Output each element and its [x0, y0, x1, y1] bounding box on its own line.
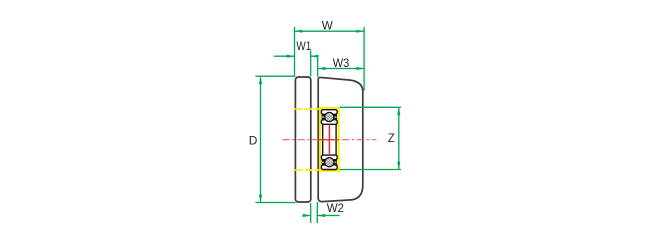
dimension W extension left: [294, 27, 296, 77]
dimension W line: [295, 30, 365, 32]
dimension W3 arrow right: [356, 67, 364, 70]
svg-text:W2: W2: [327, 201, 345, 215]
roller body: [318, 77, 363, 201]
bore seam (red vertical): [328, 125, 330, 154]
dimension W1 arrow left: [287, 55, 295, 58]
dimension W1 line left segment: [274, 55, 295, 57]
svg-text:W: W: [322, 18, 334, 32]
flange plate (left washer): [295, 77, 310, 202]
svg-text:W3: W3: [333, 56, 350, 70]
dimension W3 line: [318, 68, 364, 70]
dimension D extension bottom: [255, 202, 295, 204]
dimension W1 extension right: [310, 51, 312, 77]
dimension D extension top: [255, 75, 295, 77]
dimension Z extension top: [340, 106, 401, 108]
dimension D line: [260, 76, 262, 202]
bearing bore walls: [323, 121, 336, 158]
dimension W arrow left: [295, 30, 303, 33]
dimension W2 extension right: [316, 202, 318, 223]
dimension W3 extension left: [317, 56, 319, 77]
hidden bore line top (yellow dashed): [295, 108, 319, 110]
cage tab bottom-left: [322, 159, 325, 165]
dimension W arrow right: [356, 30, 364, 33]
centerline (red dash-dot): [282, 139, 376, 141]
dimension W2 arrow right: [317, 214, 325, 217]
ball top: [325, 112, 334, 121]
cage tab top-right: [334, 114, 337, 120]
svg-text:D: D: [249, 134, 258, 148]
dimension W2 extension left: [310, 203, 312, 223]
dimension W1 line right segment: [311, 55, 319, 57]
dimension D arrow bottom: [259, 195, 262, 203]
dimension W2 arrow left: [303, 214, 311, 217]
dimension W1 arrow right: [311, 55, 319, 58]
dimension W2 line right segment: [317, 215, 339, 217]
outer race top: [321, 110, 337, 115]
inner race top: [321, 120, 337, 125]
bearing outline (yellow rectangle): [320, 108, 339, 171]
dimension Z arrow top: [397, 107, 400, 115]
outer race bottom: [321, 165, 337, 170]
dimension Z line: [398, 107, 400, 169]
svg-text:Z: Z: [388, 131, 395, 145]
dimension Z extension bottom: [340, 169, 401, 171]
dimension Z arrow bottom: [397, 162, 400, 170]
dimension W extension right: [363, 27, 365, 91]
inner race bottom: [321, 155, 337, 160]
centerline solid segment across bearing: [318, 139, 339, 141]
dimension W2 line left segment: [303, 215, 311, 217]
cage tab top-left: [322, 114, 325, 120]
ball bottom: [325, 158, 334, 167]
hidden bore line bottom (yellow dashed): [295, 169, 319, 171]
dimension D arrow top: [259, 76, 262, 84]
svg-text:W1: W1: [296, 39, 311, 53]
cage tab bottom-right: [334, 159, 337, 165]
dimension W3 arrow left: [318, 67, 326, 70]
